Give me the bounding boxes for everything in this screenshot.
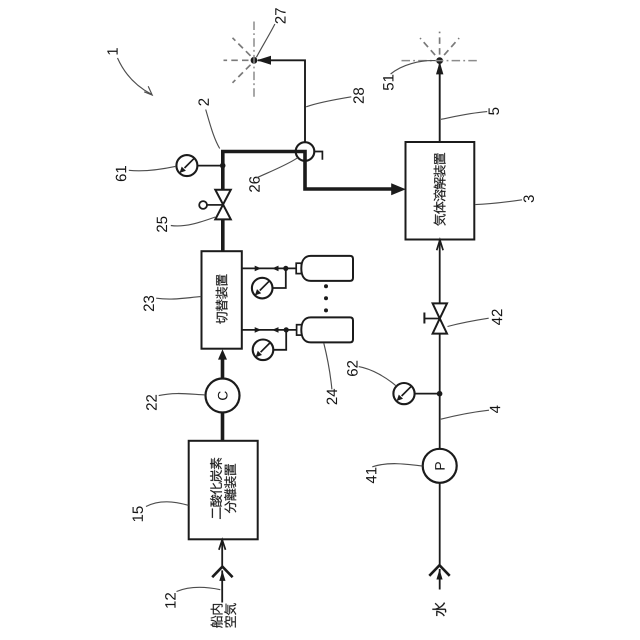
gas cylinder 1 (24) neck (296, 263, 301, 273)
wire: thick pipe compressor C to box 23 with arrow (221, 356, 225, 378)
label 1 with arrow leader (107, 48, 117, 54)
wire: air inlet line below box 15 (221, 540, 223, 603)
node: spray nozzle 51 outlet dot (436, 57, 443, 64)
label 2 (198, 99, 208, 106)
junction node at gauge 62 tap (437, 391, 443, 397)
valve 25 (bowtie with handwheel) (215, 190, 231, 220)
label 28 (353, 88, 364, 103)
label 27 (275, 8, 285, 23)
box 15 text 分離装置 (224, 501, 236, 513)
wire: thick pipe corner inside connector 26 to box 3 (297, 152, 399, 190)
connector 26 side bracket (314, 152, 322, 160)
box 3 text 気体溶解装置 (434, 214, 446, 226)
arrowhead into nozzle 27 (257, 56, 271, 65)
pump P (41) (423, 449, 457, 483)
label 42 (492, 309, 502, 325)
gauge 61 (pressure gauge) (176, 155, 197, 176)
gas cylinder 1 (24) body (301, 256, 353, 281)
thick arrowhead into box 3 (391, 183, 406, 195)
wire: gauge 61 connector (198, 165, 222, 167)
nozzle 27 centerline (vertical dash-dot) (253, 22, 255, 100)
box 23 text 切替装置 (216, 312, 228, 324)
label 61 (116, 166, 127, 181)
wire: line from nozzle 27 down to connector 26 (258, 60, 305, 142)
gas cylinder 2 (24) neck (297, 325, 302, 335)
wire: water inlet below pump P (439, 483, 441, 590)
box 3 gas dissolving device (406, 142, 475, 240)
label 22 (146, 395, 156, 410)
wire: thick pipe box 15 to compressor C (221, 413, 225, 441)
label 12 (165, 593, 175, 608)
label 41 (366, 468, 376, 484)
wire 4: valve 42 to pump P (439, 334, 441, 449)
arrowhead on water inlet below chevron (436, 569, 442, 579)
label 4 (490, 405, 500, 413)
junction node on branch 2 (284, 327, 289, 332)
wire: branch 1 from box 23 to cylinder 1 (242, 267, 297, 269)
open arrowhead into box 3 bottom (437, 240, 443, 250)
text 水 (432, 602, 446, 616)
gauge 62 (pressure gauge) (393, 383, 414, 404)
label 26 (249, 177, 260, 192)
label 51 (383, 75, 393, 90)
text 空気 (224, 616, 236, 627)
compressor C (22) (206, 379, 240, 413)
box 15 text 二酸化炭素 (212, 507, 221, 519)
wire: thick pipe valve 25 to box 23 (221, 219, 225, 250)
valve 42 (bowtie with T handle) (425, 318, 439, 320)
nozzle 27 spray rays (dashed, pointing left) (224, 38, 251, 83)
nozzle 51 spray rays (dashed, pointing up) (420, 32, 459, 55)
label 24 (327, 389, 337, 404)
nozzle 51 centerline (horizontal dash-dot) (402, 60, 478, 62)
wire 4: water line from box 3 down to valve 42 (439, 240, 441, 303)
text 船内 (211, 616, 223, 628)
open arrowhead into box 15 bottom (219, 540, 226, 550)
box 15 CO2 separation device (189, 441, 258, 540)
connector 26 circle (296, 142, 315, 161)
junction node at gauge 61 tap (220, 163, 226, 169)
label 5 (489, 108, 499, 115)
wire 2: thick pipe from valve 25 up, corner, to connector 26, down and to box 3 (223, 152, 305, 190)
wire: branch 1 gauge drop (273, 268, 286, 288)
arrowhead into nozzle 51 (436, 62, 443, 75)
label 3 (523, 195, 534, 202)
label 15 (133, 506, 143, 521)
box 23 switching device (202, 251, 242, 349)
label 25 (157, 217, 168, 232)
wire: branch 2 from box 23 to cylinder 2 (242, 329, 297, 331)
label 62 (347, 361, 358, 376)
junction node on branch 1 (283, 266, 288, 271)
label 23 (143, 296, 154, 311)
ellipsis dots between cylinders (324, 284, 328, 288)
chevron (supply break) on air inlet (212, 567, 232, 578)
wire 5: from gas dissolving box top to nozzle 51 (439, 64, 441, 142)
arrowhead on air inlet below chevron (219, 571, 225, 581)
wire: branch 2 gauge drop (273, 330, 286, 350)
wire: gauge 62 connector (415, 393, 439, 395)
gauge on branch 1 (252, 278, 273, 299)
chevron (supply break) on water inlet (429, 565, 449, 576)
node: spray nozzle 27 outlet dot (251, 57, 258, 64)
gauge on branch 2 (253, 340, 274, 361)
gas cylinder 2 (24) body (301, 317, 353, 342)
valve 25 handwheel (207, 204, 222, 206)
